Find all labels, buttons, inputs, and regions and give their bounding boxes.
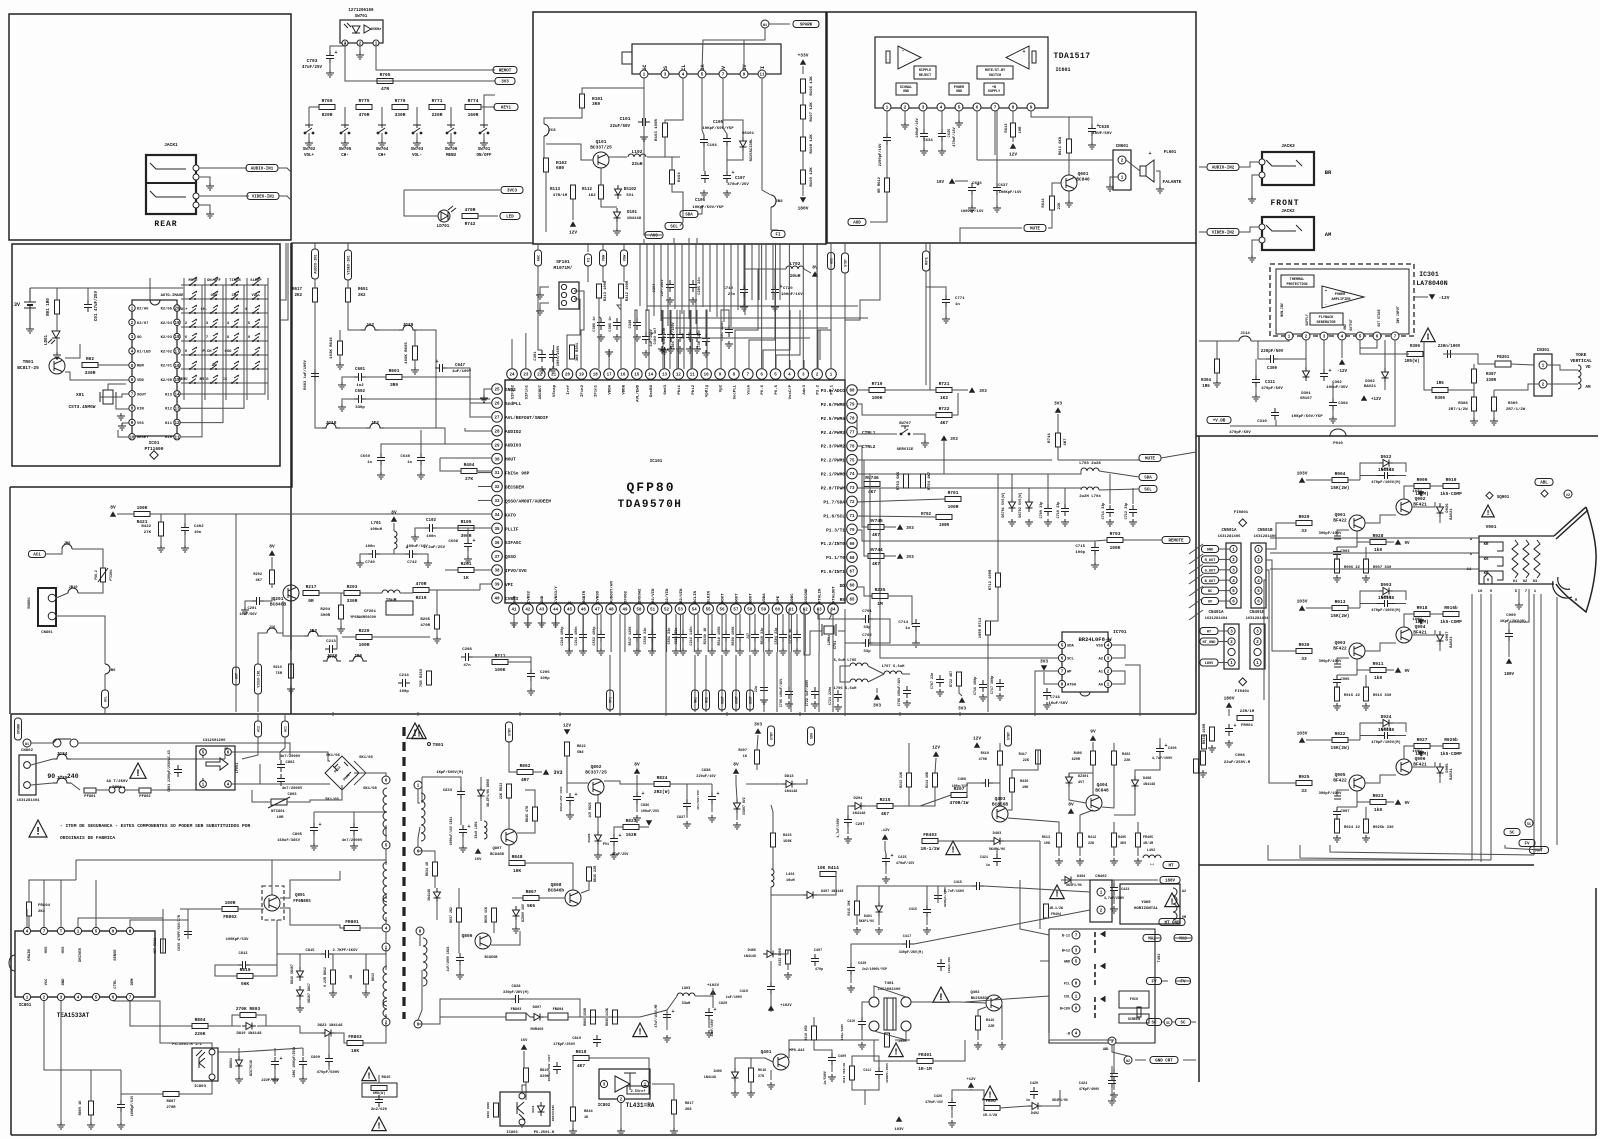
capacitor cb583 <box>579 630 587 642</box>
svg-text:49: 49 <box>622 609 628 613</box>
svg-text:19: 19 <box>579 374 585 378</box>
svg-text:VDDA: VDDA <box>763 593 767 603</box>
capacitor cb797 <box>793 630 801 642</box>
diode DB801 <box>236 1056 243 1070</box>
wire <box>360 554 368 560</box>
power 180V-crt <box>1224 696 1235 708</box>
svg-text:!: ! <box>376 1122 381 1132</box>
wire <box>600 614 602 630</box>
resistor R909 <box>1414 477 1430 497</box>
wire <box>181 340 268 342</box>
svg-text:SK1/08: SK1/08 <box>363 786 377 791</box>
svg-text:100K: 100K <box>495 667 506 673</box>
svg-text:MUTE: MUTE <box>1145 458 1156 462</box>
wire <box>385 825 387 841</box>
label key AV <box>212 364 217 368</box>
svg-text:CST3.45MGW: CST3.45MGW <box>68 404 95 410</box>
svg-text:47KpF/250V: 47KpF/250V <box>553 1042 575 1047</box>
capacitor C801 <box>174 765 182 777</box>
label C807 <box>130 1095 135 1116</box>
label key VOL+ <box>178 308 188 312</box>
resistor R760 <box>319 98 335 118</box>
wire <box>1404 746 1414 759</box>
label C717 <box>991 676 995 694</box>
svg-text:ATG0: ATG0 <box>1067 684 1077 688</box>
wire <box>418 1017 506 1024</box>
pin TDA1517-2 <box>901 103 909 111</box>
pin QFP80-74 <box>847 468 858 479</box>
label D816 <box>290 964 294 984</box>
wire <box>379 329 399 331</box>
pin QFP80-8 <box>729 369 740 380</box>
svg-text:D924: D924 <box>1381 714 1392 720</box>
wire <box>1278 340 1306 359</box>
power 3V3-r1 <box>969 387 975 393</box>
warning symbol W-psu1 <box>130 763 146 779</box>
power +12V-v <box>1361 395 1367 401</box>
wire <box>1357 531 1370 542</box>
svg-text:2n2/1000V/Y5P: 2n2/1000V/Y5P <box>862 967 887 971</box>
wire <box>636 614 638 630</box>
inductor T801-s1 <box>421 793 425 841</box>
wire <box>385 849 387 865</box>
label QFP80 pin VDDB <box>622 384 626 394</box>
resistor R915 <box>1335 687 1340 701</box>
pin CN501A-3 <box>1230 566 1237 573</box>
svg-text:12V: 12V <box>973 736 981 742</box>
wire <box>1189 586 1203 596</box>
label cb569 <box>561 627 565 646</box>
svg-text:C909: C909 <box>1506 614 1516 618</box>
wire <box>180 285 244 408</box>
svg-text:!: ! <box>135 768 141 779</box>
box psu section <box>11 714 1596 1135</box>
resistor R904 <box>1331 471 1350 491</box>
capacitor C635 <box>938 129 946 141</box>
label D822 <box>427 889 431 901</box>
capacitor ctop1 <box>667 330 675 342</box>
svg-text:C216 110n: C216 110n <box>690 627 694 646</box>
svg-text:BLKIN: BLKIN <box>708 590 712 603</box>
label C311 <box>1261 381 1283 391</box>
label IC801 <box>19 1004 32 1008</box>
label 9V-740 <box>1404 802 1410 806</box>
svg-text:IFVO/SVO: IFVO/SVO <box>505 568 527 574</box>
wire <box>665 78 683 123</box>
wire <box>838 631 861 643</box>
svg-text:R2/VIN: R2/VIN <box>651 588 656 603</box>
net tag G_OUT-cn <box>1202 566 1219 573</box>
svg-text:FOCO: FOCO <box>1130 998 1138 1002</box>
svg-text:100n/160V: 100n/160V <box>556 345 561 366</box>
wire <box>1264 580 1266 700</box>
label key 6 <box>185 336 188 340</box>
wire <box>1337 674 1357 676</box>
svg-text:10K: 10K <box>1044 842 1051 846</box>
capacitor C603 <box>311 369 319 381</box>
svg-text:33: 33 <box>1301 528 1307 534</box>
pin QFP80-53 <box>675 604 686 615</box>
svg-text:VDDC: VDDC <box>791 593 795 603</box>
svg-text:SPARK: SPARK <box>18 723 22 734</box>
label R109 <box>810 167 814 187</box>
resistor R770 <box>392 98 408 118</box>
svg-text:12V: 12V <box>932 745 940 751</box>
svg-text:PS-2501-H: PS-2501-H <box>534 1131 555 1135</box>
label C804 <box>342 838 363 843</box>
key switch symbol <box>189 347 197 356</box>
wire <box>712 996 714 1008</box>
wire <box>746 783 782 785</box>
label R845 <box>526 805 530 822</box>
ground <box>1225 740 1233 747</box>
svg-text:FALANTE: FALANTE <box>1163 179 1182 185</box>
wire <box>902 673 910 675</box>
svg-text:R775: R775 <box>359 98 370 104</box>
ground <box>338 404 346 411</box>
svg-text:CN301: CN301 <box>1537 349 1550 353</box>
wire <box>568 614 570 630</box>
wire <box>267 278 269 400</box>
svg-text:R929: R929 <box>1299 514 1310 520</box>
wire <box>566 756 568 793</box>
ground <box>1025 519 1033 526</box>
wire <box>1156 171 1160 186</box>
net tag VP1-vb <box>607 690 614 710</box>
svg-text:100R: 100R <box>948 504 959 510</box>
svg-text:JACK1: JACK1 <box>164 142 178 148</box>
wire <box>572 1058 574 1107</box>
pin T801-2 <box>382 1018 390 1026</box>
capacitor C634 <box>920 129 928 141</box>
svg-text:R304: R304 <box>1201 379 1212 383</box>
ground <box>305 140 313 147</box>
svg-text:OUT STAGE: OUT STAGE <box>1377 309 1381 326</box>
key switch symbol <box>231 305 239 314</box>
label SW706 <box>445 148 458 158</box>
pin IC01-R1 <box>174 305 180 312</box>
label key header MUTE <box>188 279 198 283</box>
label QFP80 pin VssA <box>747 384 751 394</box>
wire <box>474 527 492 529</box>
wire <box>1493 411 1495 418</box>
label C812 <box>238 952 248 956</box>
label FR804 <box>38 904 51 914</box>
key switch symbol <box>252 347 260 356</box>
svg-text:ORIGINAIS DE FABRICA: ORIGINAIS DE FABRICA <box>60 835 115 841</box>
wire <box>314 390 316 417</box>
wire <box>582 642 584 648</box>
wire <box>43 880 45 927</box>
svg-text:3V3: 3V3 <box>501 81 509 85</box>
pin CN601-2 <box>1118 156 1126 164</box>
label QFP80 pin HOUT <box>505 457 516 463</box>
wire <box>121 1093 163 1095</box>
svg-text:1k8: 1k8 <box>1374 675 1382 681</box>
svg-text:11: 11 <box>759 74 765 78</box>
pin QFP80-2 <box>812 369 823 380</box>
wire <box>450 107 452 125</box>
label FR901 <box>1240 709 1255 728</box>
svg-text:DECSDEM: DECSDEM <box>505 485 524 491</box>
svg-text:+102V: +102V <box>780 1004 792 1008</box>
wire <box>322 636 337 649</box>
svg-text:Q802: Q802 <box>591 764 602 770</box>
svg-text:60: 60 <box>775 609 781 613</box>
wire <box>513 614 515 620</box>
svg-text:100R: 100R <box>939 524 950 528</box>
ground <box>672 648 680 655</box>
wire <box>886 111 888 133</box>
label R216b2 <box>273 666 282 676</box>
svg-text:270K R803: 270K R803 <box>236 1006 261 1012</box>
wire <box>1424 341 1432 390</box>
resistor R705 <box>377 72 393 92</box>
wire <box>31 742 53 744</box>
wire <box>1494 384 1539 390</box>
label QFP80 pin GOUT <box>735 593 739 603</box>
wire <box>1280 782 1296 784</box>
svg-text:26: 26 <box>494 403 500 407</box>
jumper JE2 <box>304 628 322 636</box>
label QFP80 pin RGBTR <box>583 590 587 603</box>
wire <box>1505 845 1541 850</box>
wire <box>1412 762 1435 767</box>
label IC01 pin K2/06 <box>137 307 149 312</box>
diode D926 <box>1437 503 1444 517</box>
svg-text:D201: D201 <box>853 797 863 801</box>
svg-text:T801: T801 <box>433 742 444 748</box>
capacitor C805 <box>310 822 322 835</box>
label BZX79C18 <box>249 1060 253 1076</box>
ground <box>723 190 731 197</box>
svg-text:J17: J17 <box>747 633 751 639</box>
power 12V-m <box>569 221 577 235</box>
key switch symbol <box>189 277 197 286</box>
svg-text:100uF/25V: 100uF/25V <box>641 809 660 814</box>
svg-text:Gnd3: Gnd3 <box>663 384 668 394</box>
ground <box>538 620 546 627</box>
box audio section <box>827 12 1196 243</box>
label key header ON/OFF <box>207 278 221 283</box>
svg-text:470pF/50V: 470pF/50V <box>1261 386 1283 391</box>
svg-text:33p: 33p <box>863 626 871 630</box>
svg-text:1n: 1n <box>407 461 412 465</box>
capacitor C703 <box>326 50 338 63</box>
svg-text:50: 50 <box>636 609 642 613</box>
label key VOL- <box>251 294 260 298</box>
svg-text:R804: R804 <box>195 1017 206 1023</box>
svg-text:BC337/25: BC337/25 <box>590 145 612 151</box>
ground <box>597 334 605 341</box>
wire <box>876 688 878 693</box>
wire <box>404 190 438 216</box>
wire <box>313 835 315 843</box>
svg-text:390pF/100V: 390pF/100V <box>1319 659 1343 664</box>
label ctop2 <box>671 321 676 349</box>
svg-text:VssA: VssA <box>747 384 751 394</box>
wire <box>420 465 422 472</box>
svg-text:C425: C425 <box>898 856 907 860</box>
wire <box>726 146 728 171</box>
pin IC801-b2 <box>40 993 47 1000</box>
svg-text:ACL: ACL <box>104 696 108 702</box>
pin QFP80-19 <box>576 369 587 380</box>
label SW707 <box>897 422 914 452</box>
svg-text:FR801: FR801 <box>345 919 359 925</box>
svg-text:R924 22: R924 22 <box>1344 826 1361 830</box>
svg-text:+33V: +33V <box>798 53 809 59</box>
pin JACK2-2 <box>1259 237 1265 243</box>
ground <box>779 648 787 655</box>
wire <box>1216 341 1218 359</box>
svg-text:56: 56 <box>720 609 726 613</box>
label IC01 pin RESET <box>137 436 149 440</box>
wire <box>599 298 601 318</box>
pin SW701-3 <box>342 40 348 47</box>
label C205 <box>698 277 702 294</box>
svg-text:SK4F1/06: SK4F1/06 <box>859 919 874 923</box>
svg-text:MUTE/ST-BY: MUTE/ST-BY <box>985 68 1006 73</box>
resistor R837 <box>457 908 462 922</box>
svg-text:R910: R910 <box>1446 477 1457 483</box>
svg-text:470pF/50V: 470pF/50V <box>1229 430 1251 435</box>
label C719 <box>723 287 735 297</box>
wire <box>543 136 545 158</box>
svg-text:100uH: 100uH <box>370 528 383 532</box>
svg-text:MENU: MENU <box>178 378 188 382</box>
svg-text:1631281406: 1631281406 <box>1218 535 1242 539</box>
ground <box>1213 380 1221 387</box>
diode DS702 <box>1026 498 1033 512</box>
wire <box>1365 807 1367 820</box>
svg-text:220pF/50V: 220pF/50V <box>1261 349 1284 354</box>
resistor FR803 <box>347 1034 363 1054</box>
svg-text:C819: C819 <box>572 1037 581 1041</box>
svg-text:L702: L702 <box>790 261 801 267</box>
wire <box>708 1020 710 1028</box>
warning symbol W-crt <box>1482 505 1495 518</box>
svg-text:10: 10 <box>704 374 710 378</box>
wire <box>1300 845 1491 860</box>
ground <box>1362 835 1370 842</box>
svg-text:820R: 820R <box>322 112 333 118</box>
wire <box>1189 598 1203 608</box>
svg-text:10n: 10n <box>194 531 202 535</box>
svg-text:DS701 5V6(W): DS701 5V6(W) <box>1001 492 1006 517</box>
ground <box>1252 394 1260 401</box>
ground <box>1199 770 1207 777</box>
svg-text:C905: C905 <box>1340 678 1350 682</box>
capacitor C907 <box>1333 807 1341 819</box>
wire <box>360 927 382 929</box>
svg-text:Q901: Q901 <box>1335 512 1346 518</box>
svg-text:100n: 100n <box>365 545 375 549</box>
resistor R774 <box>465 98 481 118</box>
svg-text:44: 44 <box>553 609 559 613</box>
wire <box>354 761 366 785</box>
wire <box>925 243 927 251</box>
fuse PF802 <box>139 788 151 799</box>
label R103 <box>655 119 659 141</box>
svg-text:4K7: 4K7 <box>868 489 876 495</box>
net tag MUTE-c <box>1139 455 1161 462</box>
wire <box>987 635 989 712</box>
box vertical-deflection section <box>1196 243 1598 436</box>
ground <box>1470 418 1478 425</box>
capacitor C827 <box>553 1062 561 1074</box>
svg-text:REJECT: REJECT <box>919 74 931 78</box>
label 3V3-s1 <box>553 770 562 776</box>
wire <box>540 287 549 292</box>
wire <box>675 642 677 648</box>
label L801 <box>474 821 478 838</box>
pin QFP80-27 <box>492 412 503 423</box>
resistor R205 <box>435 615 440 629</box>
jumper JC14 <box>1239 332 1251 341</box>
label C806 <box>292 1047 296 1078</box>
svg-text:AUDIO2: AUDIO2 <box>505 429 522 435</box>
diode DS807 <box>734 799 741 813</box>
resistor R928 <box>1370 533 1386 553</box>
svg-text:D407 1N4148: D407 1N4148 <box>821 890 843 894</box>
wire <box>604 781 654 784</box>
label cb652 <box>644 628 648 645</box>
label W2 <box>1566 494 1570 498</box>
svg-text:SQ901: SQ901 <box>1497 496 1510 500</box>
resistor R906 <box>1335 559 1340 573</box>
wire <box>319 592 344 594</box>
wire <box>1337 790 1349 796</box>
label QFP80 pin P2.4/PWM3 <box>821 430 846 436</box>
svg-text:27K: 27K <box>758 1075 765 1079</box>
key switch symbol <box>210 305 218 314</box>
svg-text:!: ! <box>1054 890 1059 900</box>
svg-text:TR01: TR01 <box>23 359 34 365</box>
wire <box>572 1121 574 1128</box>
svg-text:18: 18 <box>593 374 599 378</box>
pin QFP80-43 <box>536 604 547 615</box>
label v1-608 <box>1412 618 1422 622</box>
label QFP80 pin PLLIF <box>505 526 519 532</box>
svg-text:470uF/16V: 470uF/16V <box>896 861 915 866</box>
wire <box>344 107 346 125</box>
svg-text:VIDEO-IN1: VIDEO-IN1 <box>257 670 261 687</box>
wire <box>623 243 625 250</box>
svg-text:R771: R771 <box>432 98 443 104</box>
svg-text:R614: R614 <box>1042 198 1046 208</box>
svg-text:330R: 330R <box>1486 379 1497 383</box>
svg-text:220n/100V: 220n/100V <box>1438 344 1461 349</box>
label R422 <box>141 525 151 535</box>
svg-text:330R: 330R <box>85 370 96 376</box>
pin QFP80-35 <box>492 523 503 534</box>
resistor R826 <box>596 803 601 817</box>
wire <box>459 965 461 972</box>
svg-text:103V: 103V <box>1297 599 1308 605</box>
svg-text:4,7uF/100V: 4,7uF/100V <box>836 818 840 837</box>
bridge rectifier D810-D813 <box>325 756 359 790</box>
wire <box>598 305 600 369</box>
label IC01 pin K2/01 <box>161 364 173 369</box>
svg-text:BC846: BC846 <box>1095 788 1109 794</box>
svg-text:FI0801: FI0801 <box>1234 511 1249 515</box>
power 3V3-r3 <box>897 553 903 559</box>
resistor R930 <box>1296 642 1312 662</box>
svg-text:C809: C809 <box>311 1056 321 1060</box>
svg-text:59: 59 <box>761 609 767 613</box>
label D101 <box>627 211 642 221</box>
